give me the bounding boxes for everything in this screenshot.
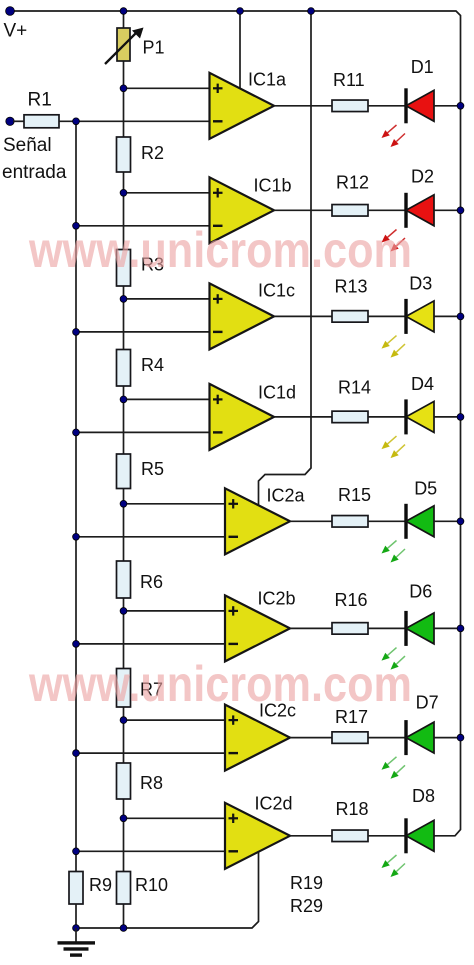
node ground junction left bbox=[73, 925, 80, 932]
resistor R12 bbox=[332, 205, 368, 217]
resistor R18 bbox=[332, 830, 368, 842]
wire R13 to D3 bbox=[368, 315, 406, 317]
op-amp IC2a bbox=[225, 488, 290, 554]
resistor R1 bbox=[24, 115, 59, 128]
R8 label bbox=[140, 773, 163, 793]
LED D7 bbox=[382, 720, 435, 779]
resistor R6 bbox=[117, 561, 131, 598]
wire signal input bus (left vertical) bbox=[75, 121, 77, 871]
LED D8 bbox=[382, 818, 435, 877]
R15 label bbox=[338, 485, 371, 505]
R6 label bbox=[140, 572, 163, 592]
node ladder tap 1 bbox=[120, 85, 127, 92]
R16 label bbox=[335, 590, 368, 610]
resistor R11 bbox=[332, 100, 368, 112]
svg-text:D7: D7 bbox=[416, 692, 439, 712]
wire R9 bottom bbox=[75, 904, 77, 928]
svg-text:IC1b: IC1b bbox=[254, 176, 292, 196]
op-amp IC1a bbox=[210, 73, 275, 139]
svg-text:R15: R15 bbox=[338, 485, 371, 505]
resistor R4 bbox=[117, 350, 131, 387]
wire IC1a output to R11 bbox=[274, 105, 332, 107]
node ladder tap 5 bbox=[120, 500, 127, 507]
wire R16 to D6 bbox=[368, 627, 406, 629]
potentiometer P1 bbox=[105, 28, 144, 65]
svg-text:D6: D6 bbox=[409, 582, 432, 602]
svg-text:R1: R1 bbox=[28, 90, 52, 111]
svg-text:www.unicrom.com: www.unicrom.com bbox=[28, 222, 412, 278]
node rail junction row 5 bbox=[457, 518, 464, 525]
node signal bus junction row 8 bbox=[73, 848, 80, 855]
svg-text:R2: R2 bbox=[141, 143, 164, 163]
wire D7 to rail bbox=[434, 737, 461, 739]
node ladder tap 8 bbox=[120, 815, 127, 822]
resistor R8 bbox=[117, 763, 131, 799]
IC1d label bbox=[258, 383, 296, 403]
svg-text:R4: R4 bbox=[141, 355, 164, 375]
LED D4 bbox=[382, 399, 435, 458]
node signal bus junction row 3 bbox=[73, 329, 80, 336]
svg-text:R13: R13 bbox=[335, 277, 368, 297]
node rail junction row 3 bbox=[457, 313, 464, 320]
wire IC2d output to R18 bbox=[290, 835, 332, 837]
R11 label bbox=[333, 70, 365, 90]
wire R17 to D7 bbox=[368, 737, 406, 739]
wire R15 to D5 bbox=[368, 520, 406, 522]
svg-text:R5: R5 bbox=[141, 459, 164, 479]
svg-text:IC2d: IC2d bbox=[255, 794, 293, 814]
P1 label bbox=[143, 38, 165, 58]
resistor R3 bbox=[117, 250, 131, 287]
D2 label bbox=[411, 167, 434, 187]
svg-text:R19: R19 bbox=[290, 873, 323, 893]
D7 label bbox=[416, 692, 439, 712]
wire IC1b output to R12 bbox=[274, 209, 332, 211]
node rail junction row 2 bbox=[457, 207, 464, 214]
svg-text:R11: R11 bbox=[333, 70, 365, 90]
svg-text:R18: R18 bbox=[336, 799, 369, 819]
resistor R5 bbox=[117, 454, 131, 489]
svg-text:R9: R9 bbox=[89, 875, 112, 895]
svg-text:IC1c: IC1c bbox=[258, 281, 295, 301]
node input terminal bbox=[6, 117, 14, 125]
svg-text:D8: D8 bbox=[412, 786, 435, 806]
svg-text:IC1d: IC1d bbox=[258, 383, 296, 403]
node ladder tap 2 bbox=[120, 189, 127, 196]
wire D2 to rail bbox=[434, 209, 461, 211]
Señal entrada label bbox=[2, 135, 67, 183]
resistor R2 bbox=[117, 137, 131, 172]
svg-text:R29: R29 bbox=[290, 896, 323, 916]
IC2d label bbox=[255, 794, 293, 814]
resistor R15 bbox=[332, 516, 368, 528]
resistor R10 bbox=[117, 872, 131, 905]
node rail junction row 4 bbox=[457, 414, 464, 421]
wire D1 to rail bbox=[434, 105, 461, 107]
wire IC2b output to R16 bbox=[290, 627, 332, 629]
op-amp IC1d bbox=[210, 384, 275, 450]
R13 label bbox=[335, 277, 368, 297]
wire signal bus to IC1b - input bbox=[76, 225, 210, 227]
wire IC2a output to R15 bbox=[290, 520, 332, 522]
svg-text:R14: R14 bbox=[338, 378, 371, 398]
wire IC1c output to R13 bbox=[274, 315, 332, 317]
resistor R13 bbox=[332, 311, 368, 323]
op-amp IC2d bbox=[225, 803, 290, 869]
svg-text:R16: R16 bbox=[335, 590, 368, 610]
node signal bus junction row 6 bbox=[73, 641, 80, 648]
R12 label bbox=[336, 173, 369, 193]
wire IC2c output to R17 bbox=[290, 737, 332, 739]
wire ladder tap to IC1c + input bbox=[124, 298, 210, 300]
node signal bus junction row 5 bbox=[73, 533, 80, 540]
node V+ input terminal bbox=[6, 7, 15, 16]
R17 label bbox=[335, 707, 368, 727]
node ladder tap 6 bbox=[120, 608, 127, 615]
R14 label bbox=[338, 378, 371, 398]
svg-text:D2: D2 bbox=[411, 167, 434, 187]
wire D3 to rail bbox=[434, 315, 461, 317]
svg-text:IC2b: IC2b bbox=[258, 589, 296, 609]
IC2a label bbox=[267, 486, 306, 506]
wire signal bus to IC2b - input bbox=[76, 643, 225, 645]
svg-text:V+: V+ bbox=[4, 21, 28, 42]
node IC2 supply junction bbox=[308, 8, 315, 15]
IC1b label bbox=[254, 176, 292, 196]
wire V+ supply path to IC2 bbox=[259, 11, 312, 506]
svg-text:R10: R10 bbox=[135, 875, 168, 895]
svg-text:www.unicrom.com: www.unicrom.com bbox=[28, 656, 412, 712]
R2 label bbox=[141, 143, 164, 163]
LED D5 bbox=[382, 504, 435, 563]
op-amp IC2c bbox=[225, 705, 290, 771]
R7 label bbox=[140, 680, 163, 700]
node ladder top junction bbox=[120, 8, 127, 15]
wire resistor ladder column bbox=[123, 11, 125, 928]
op-amp IC1b bbox=[210, 177, 275, 243]
wire signal bus to IC2c - input bbox=[76, 752, 225, 754]
D6 label bbox=[409, 582, 432, 602]
svg-text:P1: P1 bbox=[143, 38, 165, 58]
wire D4 to rail bbox=[434, 416, 461, 418]
svg-text:R12: R12 bbox=[336, 173, 369, 193]
R3 label bbox=[141, 255, 164, 275]
svg-text:D1: D1 bbox=[411, 57, 434, 77]
D3 label bbox=[409, 274, 432, 294]
ground bbox=[58, 928, 96, 957]
svg-text:R8: R8 bbox=[140, 773, 163, 793]
wire ladder tap to IC1a + input bbox=[124, 87, 210, 89]
node signal bus junction row 1 bbox=[73, 118, 80, 125]
svg-text:entrada: entrada bbox=[2, 162, 67, 183]
IC1a label bbox=[248, 70, 287, 90]
R19 R29 label bbox=[290, 873, 323, 916]
node signal bus junction row 7 bbox=[73, 750, 80, 757]
wire signal bus to IC1a - input bbox=[76, 120, 210, 122]
R4 label bbox=[141, 355, 164, 375]
svg-text:IC2a: IC2a bbox=[267, 486, 306, 506]
LED D3 bbox=[382, 299, 435, 358]
wire ladder tap to IC2d + input bbox=[124, 817, 226, 819]
D8 label bbox=[412, 786, 435, 806]
wire R18 to D8 bbox=[368, 835, 406, 837]
resistor R17 bbox=[332, 732, 368, 744]
resistor R16 bbox=[332, 623, 368, 635]
node signal bus junction row 2 bbox=[73, 222, 80, 229]
wire input terminal to R1 bbox=[13, 120, 24, 122]
wire IC1d output to R14 bbox=[274, 416, 332, 418]
wire ladder tap to IC2a + input bbox=[124, 503, 226, 505]
resistor R7 bbox=[117, 669, 131, 708]
wire signal bus to IC1d - input bbox=[76, 431, 210, 433]
LED D6 bbox=[382, 611, 435, 670]
svg-text:D5: D5 bbox=[414, 479, 437, 499]
node IC1 supply junction bbox=[237, 8, 244, 15]
svg-text:D4: D4 bbox=[411, 374, 434, 394]
node ladder tap 4 bbox=[120, 396, 127, 403]
wire R11 to D1 bbox=[368, 105, 406, 107]
wire D5 to rail bbox=[434, 520, 461, 522]
wire ladder tap to IC1d + input bbox=[124, 398, 210, 400]
svg-text:D3: D3 bbox=[409, 274, 432, 294]
wire V+ supply stub to IC1 bbox=[239, 11, 241, 90]
watermark www.unicrom.com lower bbox=[28, 656, 412, 712]
R9 label bbox=[89, 875, 112, 895]
svg-text:Señal: Señal bbox=[3, 135, 52, 156]
op-amp IC1c bbox=[210, 283, 275, 349]
node rail junction row 7 bbox=[457, 734, 464, 741]
R10 label bbox=[135, 875, 168, 895]
wire signal bus to IC2d - input bbox=[76, 850, 225, 852]
wire R12 to D2 bbox=[368, 209, 406, 211]
V+ label bbox=[4, 21, 28, 42]
wire D6 to rail bbox=[434, 627, 461, 629]
D4 label bbox=[411, 374, 434, 394]
watermark www.unicrom.com upper bbox=[28, 222, 412, 278]
IC2b label bbox=[258, 589, 296, 609]
resistor R14 bbox=[332, 411, 368, 423]
wire ladder tap to IC1b + input bbox=[124, 192, 210, 194]
wire R14 to D4 bbox=[368, 416, 406, 418]
op-amp IC2b bbox=[225, 595, 290, 661]
D5 label bbox=[414, 479, 437, 499]
R18 label bbox=[336, 799, 369, 819]
svg-text:IC1a: IC1a bbox=[248, 70, 287, 90]
wire signal bus to IC2a - input bbox=[76, 536, 225, 538]
LED D1 bbox=[382, 88, 435, 147]
wire signal bus to IC1c - input bbox=[76, 331, 210, 333]
R5 label bbox=[141, 459, 164, 479]
IC1c label bbox=[258, 281, 295, 301]
wire ground path from IC2 bbox=[76, 852, 259, 928]
node rail junction row 6 bbox=[457, 625, 464, 632]
wire ladder tap to IC2b + input bbox=[124, 610, 226, 612]
node ladder tap 3 bbox=[120, 296, 127, 303]
svg-text:R6: R6 bbox=[140, 572, 163, 592]
resistor R9 bbox=[69, 872, 83, 905]
node ladder tap 7 bbox=[120, 717, 127, 724]
IC2c label bbox=[259, 701, 296, 721]
node signal bus junction row 4 bbox=[73, 429, 80, 436]
D1 label bbox=[411, 57, 434, 77]
LED D2 bbox=[382, 193, 435, 252]
node ground junction ladder bbox=[120, 925, 127, 932]
wire ladder tap to IC2c + input bbox=[124, 719, 226, 721]
node rail junction row 1 bbox=[457, 102, 464, 109]
wire R1 to junction bbox=[59, 120, 76, 122]
R1 label bbox=[28, 90, 52, 111]
